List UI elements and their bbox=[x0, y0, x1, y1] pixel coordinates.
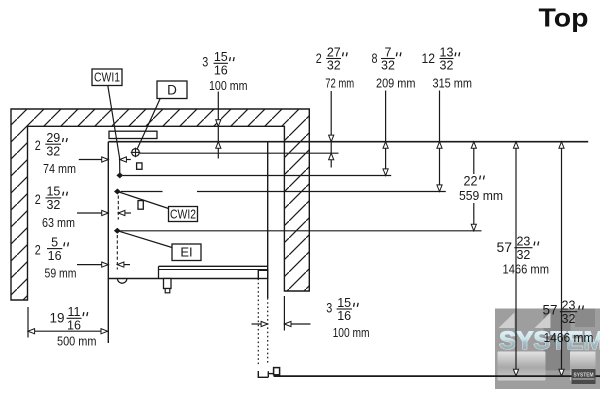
svg-text:559 mm: 559 mm bbox=[459, 188, 503, 203]
dimension text 57 23/32in 1466 mm first bbox=[497, 235, 550, 277]
dotted drain line left bbox=[257, 279, 259, 365]
svg-text:74 mm: 74 mm bbox=[43, 161, 76, 176]
svg-text:2: 2 bbox=[35, 192, 41, 207]
watermark logo box bbox=[572, 369, 596, 384]
svg-text:315 mm: 315 mm bbox=[433, 76, 473, 91]
label box EI bbox=[172, 244, 201, 261]
svg-text:15: 15 bbox=[337, 296, 351, 310]
svg-text:72 mm: 72 mm bbox=[325, 76, 354, 91]
D connection symbol (circle with cross) bbox=[131, 148, 141, 158]
dimension 559 mm vertical+arrows bbox=[471, 142, 476, 231]
svg-text:8: 8 bbox=[372, 51, 378, 66]
dimension 72 mm vertical+arrows bbox=[329, 91, 334, 168]
foot block lower bbox=[165, 289, 170, 293]
node diamond CWI2 bbox=[114, 189, 121, 195]
dimension text 8 7/32in 209 mm bbox=[372, 45, 416, 90]
svg-text:CWI2: CWI2 bbox=[170, 208, 196, 222]
dimension 1466 mm vertical 1 +arrows bbox=[513, 142, 518, 376]
svg-text:5: 5 bbox=[51, 235, 58, 249]
dimension 100 mm top vertical+arrows bbox=[216, 92, 221, 159]
dimension text 2 5/16in 59 mm bbox=[35, 235, 77, 280]
dimension 315 mm vertical+arrows bbox=[437, 91, 442, 192]
dimension text 12 13/32in 315 mm bbox=[422, 45, 473, 90]
svg-text:57: 57 bbox=[497, 240, 513, 255]
dimension 1466 mm vertical 2 +arrows bbox=[559, 142, 564, 376]
dimension text 2 27/32in 72 mm bbox=[316, 45, 355, 90]
foot block upper bbox=[164, 279, 172, 289]
dimension 500 mm left extension bbox=[27, 307, 29, 338]
leader CWI2 bbox=[117, 192, 168, 209]
dimension text 19 11/16in 500 mm bbox=[50, 305, 97, 348]
small square 1 bbox=[137, 163, 142, 169]
leader CWI1 bbox=[108, 86, 120, 176]
dimension text 3 15/16in 100 mm bottom bbox=[326, 296, 369, 340]
hook bottom bbox=[258, 376, 269, 378]
svg-text:32: 32 bbox=[46, 144, 60, 158]
svg-text:3: 3 bbox=[326, 301, 332, 316]
svg-text:SYSTEM: SYSTEM bbox=[574, 373, 594, 379]
svg-text:2: 2 bbox=[316, 51, 322, 66]
leader D bbox=[137, 99, 160, 149]
watermark dark top-right block bbox=[575, 309, 595, 328]
svg-text:100 mm: 100 mm bbox=[333, 325, 370, 340]
appliance right edge bbox=[267, 142, 269, 298]
line from D connection (y=153.2) bbox=[140, 152, 339, 154]
svg-text:11: 11 bbox=[68, 305, 81, 319]
hook right vertical bbox=[267, 371, 269, 377]
svg-text:59 mm: 59 mm bbox=[45, 266, 77, 281]
dimension 209 mm vertical+arrows bbox=[383, 91, 388, 176]
plinth second line bbox=[159, 269, 268, 271]
svg-text:15: 15 bbox=[214, 50, 228, 64]
svg-text:12: 12 bbox=[422, 51, 436, 66]
svg-text:23: 23 bbox=[562, 299, 576, 313]
svg-text:16: 16 bbox=[48, 249, 62, 263]
line from CWI2 connection segment b bbox=[197, 191, 446, 193]
leader EI bbox=[117, 231, 172, 248]
small square 2 bbox=[138, 201, 143, 210]
dimension 500 mm line+arrows bbox=[28, 329, 108, 334]
line from CWI2 connection segment a bbox=[121, 191, 163, 193]
svg-text:57: 57 bbox=[543, 303, 558, 318]
hook left vertical bbox=[257, 371, 259, 377]
dimension text 2 29/32in 74 mm bbox=[35, 131, 76, 176]
svg-text:63 mm: 63 mm bbox=[42, 215, 75, 230]
label box D bbox=[157, 81, 187, 99]
svg-text:2: 2 bbox=[35, 243, 41, 258]
label box CWI2 bbox=[169, 207, 198, 222]
svg-text:16: 16 bbox=[67, 319, 81, 333]
plinth top line bbox=[159, 265, 268, 267]
dimension text 57 23/32in 1466 mm second bbox=[543, 299, 594, 345]
plinth left edge bbox=[158, 266, 160, 278]
svg-text:23: 23 bbox=[516, 235, 530, 249]
floor line bbox=[274, 375, 600, 377]
dimension text 2 15/32in 63 mm bbox=[35, 185, 75, 230]
watermark triangle 2 bbox=[535, 313, 551, 329]
watermark base panel bbox=[495, 309, 600, 390]
svg-text:19: 19 bbox=[50, 311, 65, 326]
appliance left edge with lower extension bbox=[107, 142, 109, 343]
watermark glossy band left bbox=[498, 352, 546, 381]
svg-text:15: 15 bbox=[46, 185, 60, 199]
dimension 59 mm row line+arrows bbox=[77, 235, 130, 270]
svg-text:EI: EI bbox=[180, 245, 192, 260]
svg-text:1466 mm: 1466 mm bbox=[544, 330, 594, 345]
node diamond EI bbox=[114, 228, 121, 234]
dimension 100 mm bottom line+arrows bbox=[252, 321, 311, 326]
svg-text:3: 3 bbox=[202, 55, 208, 70]
svg-text:2: 2 bbox=[35, 138, 41, 153]
svg-text:500 mm: 500 mm bbox=[57, 333, 97, 348]
svg-text:32: 32 bbox=[516, 248, 530, 262]
svg-text:32: 32 bbox=[381, 59, 395, 73]
svg-text:27: 27 bbox=[327, 45, 341, 59]
top tab bbox=[109, 131, 157, 138]
dimension 74 mm row line+arrows bbox=[79, 157, 131, 162]
svg-text:209 mm: 209 mm bbox=[376, 76, 416, 91]
watermark triangle 1 bbox=[499, 313, 515, 329]
dotted drain line right bbox=[267, 298, 269, 365]
dimension 63 mm row line+arrows bbox=[77, 196, 131, 220]
svg-text:Top: Top bbox=[539, 3, 589, 33]
line from CWI1 connection (y=175.5) bbox=[123, 175, 391, 177]
svg-text:32: 32 bbox=[327, 59, 341, 73]
watermark dark column bbox=[544, 309, 571, 371]
svg-text:100 mm: 100 mm bbox=[209, 78, 248, 93]
dimension text 22in 559 mm bbox=[459, 174, 503, 203]
svg-text:7: 7 bbox=[385, 45, 392, 59]
semicircular foot bbox=[117, 279, 127, 284]
dimension 100 mm bottom extension bbox=[283, 296, 285, 331]
dimension text 3 15/16in 100 mm top bbox=[202, 50, 247, 93]
svg-text:13: 13 bbox=[440, 45, 454, 59]
line from EI connection (y=230.8) bbox=[121, 230, 482, 232]
svg-text:D: D bbox=[167, 83, 177, 98]
svg-text:29: 29 bbox=[46, 131, 60, 145]
svg-text:32: 32 bbox=[562, 312, 576, 326]
reference line / appliance top edge bbox=[108, 141, 588, 143]
hook connector bbox=[268, 373, 273, 375]
svg-text:16: 16 bbox=[337, 309, 351, 323]
svg-text:32: 32 bbox=[440, 59, 454, 73]
svg-text:32: 32 bbox=[46, 198, 60, 212]
label box CWI1 bbox=[92, 69, 122, 86]
svg-text:CWI1: CWI1 bbox=[94, 71, 120, 85]
hook plug box bbox=[274, 368, 280, 375]
svg-text:16: 16 bbox=[214, 64, 228, 78]
node diamond CWI1 bbox=[116, 172, 123, 178]
wall (hatched, top band + left column + right column) bbox=[11, 109, 309, 300]
watermark glossy band right bbox=[570, 352, 596, 381]
plinth corner box bbox=[258, 270, 267, 278]
svg-text:1466 mm: 1466 mm bbox=[503, 262, 550, 277]
svg-text:22: 22 bbox=[464, 174, 478, 189]
appliance bottom edge bbox=[108, 278, 258, 280]
